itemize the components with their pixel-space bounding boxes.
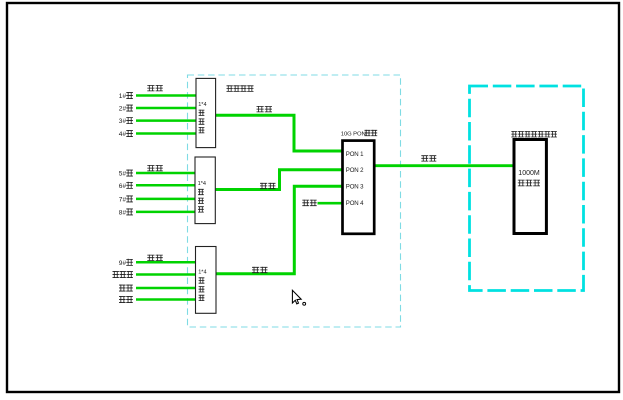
wire building 2 to splitter 1 — [136, 107, 196, 110]
svg-text:3#: 3# — [119, 118, 127, 125]
label 中心机房交换机 — [511, 131, 517, 137]
label 商场 — [119, 285, 126, 292]
label 光纤 splitter1 — [257, 106, 264, 112]
label 光缆 group1 — [147, 85, 154, 91]
splitter 3 box — [196, 247, 217, 314]
label 光纤 splitter3 — [252, 267, 259, 273]
wire building 1 to splitter 1 — [136, 94, 196, 97]
svg-text:4#: 4# — [119, 131, 127, 138]
label 光缆 group2 — [147, 165, 154, 171]
中心机房 dashed boundary — [470, 86, 584, 291]
wire PON box to central switch — [374, 164, 514, 167]
wire splitter 2 output to PON 2 — [216, 170, 343, 190]
svg-text:1000M: 1000M — [518, 170, 540, 177]
wire splitter 3 output to PON 3 — [216, 186, 343, 274]
splitter 1 box — [196, 78, 216, 147]
central switch box — [514, 140, 546, 234]
svg-text:9#: 9# — [119, 260, 127, 267]
wire building 5 to splitter 2 — [136, 172, 195, 175]
svg-text:1*4: 1*4 — [198, 181, 206, 187]
svg-text:PON 4: PON 4 — [346, 200, 364, 207]
label 幼儿园 — [113, 271, 119, 278]
label 光纤 splitter2 — [260, 183, 267, 189]
svg-text:1#: 1# — [119, 93, 127, 100]
wire mall to splitter 3 — [136, 287, 196, 290]
wire building 8 to splitter 2 — [136, 211, 195, 214]
wire kindergarten to splitter 3 — [136, 273, 196, 276]
svg-text:8#: 8# — [119, 209, 127, 216]
mouse cursor — [292, 290, 301, 304]
svg-text:7#: 7# — [119, 196, 127, 203]
label 会所 — [119, 296, 126, 303]
svg-text:6#: 6# — [119, 183, 127, 190]
label 光缆 group3 — [147, 255, 154, 261]
wire building 7 to splitter 2 — [136, 198, 195, 201]
wire club to splitter 3 — [136, 298, 196, 301]
svg-text:5#: 5# — [119, 171, 127, 178]
wire building9 to splitter 3 — [136, 261, 196, 264]
svg-text:1*4: 1*4 — [198, 270, 206, 276]
wire spare to PON 4 — [318, 202, 343, 205]
label 小区机房 — [227, 85, 233, 91]
svg-text:PON 3: PON 3 — [346, 183, 364, 190]
svg-text:PON 2: PON 2 — [346, 167, 364, 174]
wire building 4 to splitter 1 — [136, 132, 196, 135]
splitter 2 box — [195, 157, 215, 224]
svg-text:2#: 2# — [119, 106, 127, 113]
10G PON device box — [343, 141, 375, 234]
小区机房 dashed boundary — [188, 75, 401, 327]
wire building 3 to splitter 1 — [136, 119, 196, 122]
label 交换机 — [518, 180, 525, 187]
label 备用 spare — [302, 200, 309, 206]
svg-text:10G PON: 10G PON — [341, 132, 366, 138]
wire splitter 1 output to PON 1 — [216, 115, 343, 151]
svg-text:1*4: 1*4 — [198, 102, 206, 108]
wire building 6 to splitter 2 — [136, 184, 195, 187]
label 光缆 main fiber — [421, 155, 428, 161]
svg-text:PON 1: PON 1 — [346, 151, 364, 158]
